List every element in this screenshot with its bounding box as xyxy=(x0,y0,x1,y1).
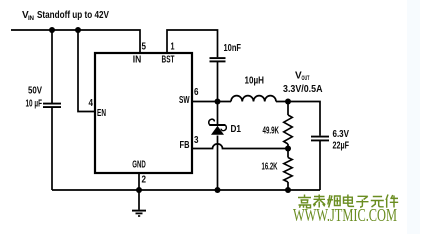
resistor R1 49.9K xyxy=(284,115,293,144)
svg-text:FB: FB xyxy=(180,140,190,151)
capacitor C_OUT 22uF 6.3V xyxy=(311,137,329,141)
wire: output node to R1 xyxy=(287,102,289,116)
svg-text:3: 3 xyxy=(194,135,199,146)
wire: EN branch xyxy=(78,30,95,112)
wire: Cout bottom to ground rail xyxy=(319,141,321,191)
node: R2 bottom junction xyxy=(285,187,291,193)
wire: inductor to output node and down to Cout xyxy=(276,102,320,136)
node: diode anode junction xyxy=(215,187,221,193)
wire: input rail to IN pin xyxy=(11,30,140,53)
svg-text:22µF: 22µF xyxy=(333,140,350,151)
node: EN tap junction xyxy=(75,27,81,33)
capacitor C_IN 10uF 50V xyxy=(43,104,61,108)
inductor L1 10uH xyxy=(231,96,276,102)
wire: R2 to ground rail xyxy=(287,182,289,190)
svg-text:GND: GND xyxy=(132,160,146,171)
watermark Chinese characters (drawn strokes) xyxy=(298,195,398,208)
svg-text:OUT: OUT xyxy=(302,75,310,82)
svg-text:3.3V/0.5A: 3.3V/0.5A xyxy=(283,84,323,95)
svg-text:4: 4 xyxy=(89,98,94,109)
svg-text:D1: D1 xyxy=(231,124,242,135)
svg-text:10nF: 10nF xyxy=(224,43,242,54)
svg-text:EN: EN xyxy=(97,108,106,119)
svg-text:2: 2 xyxy=(142,174,147,185)
wire: R1 to FB node xyxy=(287,144,289,158)
char 嘉 xyxy=(298,195,311,208)
char 元 xyxy=(371,197,384,208)
char 件 xyxy=(386,195,398,208)
capacitor C_BST 10nF xyxy=(210,58,226,61)
wire: SW node down to diode cathode xyxy=(217,102,219,125)
svg-text:IN: IN xyxy=(28,15,35,22)
svg-text:SW: SW xyxy=(179,95,190,106)
svg-text:1: 1 xyxy=(171,42,175,53)
svg-text:6.3V: 6.3V xyxy=(333,129,350,140)
wire: FB pin with hop over diode branch xyxy=(193,144,288,149)
svg-text:49.9K: 49.9K xyxy=(263,125,280,136)
wire: Cin branch upper xyxy=(51,30,53,103)
node: output junction xyxy=(285,99,291,105)
node: FB divider junction xyxy=(285,146,291,152)
node: SW junction xyxy=(215,99,221,105)
ground symbol xyxy=(132,190,146,216)
wire: SW pin to inductor xyxy=(193,101,231,103)
svg-text:5: 5 xyxy=(142,42,147,53)
wire: GND pin 2 xyxy=(138,174,140,190)
IC U1 buck regulator body xyxy=(95,53,192,173)
title label Vin Standoff up to 42V xyxy=(22,10,109,22)
background tint strip (right) xyxy=(407,0,420,234)
wire: diode anode to ground rail xyxy=(217,136,219,191)
wire: BST pin to bootstrap cap xyxy=(167,30,218,57)
char 电 xyxy=(344,195,355,207)
wire: 10nF bottom to SW node xyxy=(217,62,219,102)
svg-text:IN: IN xyxy=(133,55,142,66)
char 姆 xyxy=(327,195,340,208)
svg-text:10µH: 10µH xyxy=(245,76,265,87)
char 子 xyxy=(356,196,368,207)
node: GND pin junction xyxy=(136,187,142,193)
resistor R2 16.2K xyxy=(284,158,292,183)
svg-text:16.2K: 16.2K xyxy=(262,162,278,173)
svg-text:6: 6 xyxy=(194,87,199,98)
svg-text:50V: 50V xyxy=(28,86,42,97)
label Vout xyxy=(295,71,310,83)
svg-text:WWW.JTMIC.COM: WWW.JTMIC.COM xyxy=(293,205,397,225)
char 泰 xyxy=(313,195,325,208)
wire: Cin branch lower to ground rail xyxy=(51,107,53,190)
svg-text:10 µF: 10 µF xyxy=(26,99,43,110)
svg-text:Standoff up to 42V: Standoff up to 42V xyxy=(37,10,109,21)
node: input cap tap junction xyxy=(49,27,55,33)
svg-text:BST: BST xyxy=(162,55,175,66)
diode D1 schottky xyxy=(209,119,227,135)
ground rail xyxy=(52,189,320,191)
